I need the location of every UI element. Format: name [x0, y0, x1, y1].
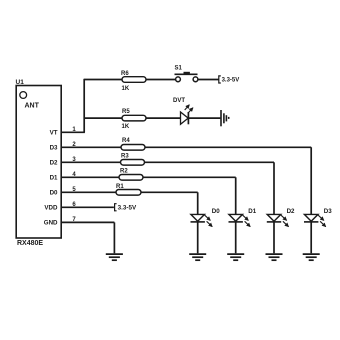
resistor R5 value 1K [122, 124, 130, 130]
wire LED D2 to ground [273, 222, 275, 253]
LED D2 emission arrows [281, 215, 289, 226]
switch S1 refdes label [175, 65, 183, 71]
resistor R1 refdes label [116, 184, 124, 190]
IC part number RX480E [17, 240, 43, 247]
svg-text:D2: D2 [50, 160, 58, 167]
svg-text:R3: R3 [121, 153, 129, 159]
wire LED D0 to ground [197, 222, 199, 253]
wire D2 pin row [61, 161, 274, 163]
ground (LED D3) [303, 254, 320, 260]
IC U1 body [16, 86, 61, 239]
wire D3 pin row [61, 146, 311, 148]
svg-text:R6: R6 [121, 71, 129, 77]
LED D2 label [287, 208, 295, 215]
pin number 7 [72, 217, 76, 223]
LED D1 emission arrows [243, 215, 251, 226]
wire D1 corner down to LED D1 [235, 177, 237, 214]
LED D2 [267, 214, 281, 222]
wire top row to R6 [84, 79, 123, 81]
ground (LED D0) [189, 254, 206, 260]
svg-text:D3: D3 [324, 208, 332, 215]
svg-text:3.3-5V: 3.3-5V [222, 78, 240, 84]
ground (LED D1) [227, 254, 244, 260]
resistor R5 refdes label [122, 109, 130, 115]
svg-text:D3: D3 [50, 145, 58, 152]
pin number 4 [72, 172, 76, 178]
wire VT riser vertical [83, 79, 85, 133]
resistor R3 refdes label [121, 153, 129, 159]
ground (GND pin) [106, 254, 123, 260]
ANT label [25, 103, 40, 110]
LED D1 label [248, 208, 256, 215]
svg-text:1K: 1K [122, 86, 130, 92]
svg-text:D1: D1 [50, 175, 58, 182]
resistor R4 refdes label [122, 138, 130, 144]
svg-text:R2: R2 [120, 169, 128, 175]
switch S1 [175, 72, 198, 82]
svg-text:DVT: DVT [173, 98, 185, 104]
LED DVT emission arrows [185, 105, 193, 113]
svg-text:VT: VT [50, 130, 58, 137]
resistor R4 [121, 145, 145, 151]
pin number 1 [72, 127, 76, 133]
wire R5 row from riser [84, 117, 123, 119]
wire R6 to switch S1 [146, 79, 176, 81]
svg-text:ANT: ANT [25, 103, 40, 110]
pin label D3 [50, 145, 58, 152]
pin number 5 [72, 187, 76, 193]
pin label VDD [44, 205, 58, 212]
svg-text:S1: S1 [175, 65, 183, 71]
wire VDD pin to power flag [61, 206, 114, 208]
pin label D0 [50, 190, 58, 197]
pin number 2 [72, 142, 76, 148]
LED DVT [181, 112, 189, 124]
pin number 3 [72, 157, 76, 163]
wire D2 corner down to LED D2 [273, 162, 275, 214]
pin label GND [44, 220, 58, 227]
antenna circle [20, 92, 27, 99]
pin label D2 [50, 160, 58, 167]
svg-text:R1: R1 [116, 184, 124, 190]
resistor R1 [116, 190, 141, 196]
resistor R2 refdes label [120, 169, 128, 175]
resistor R6 refdes label [121, 71, 129, 77]
svg-text:R4: R4 [122, 138, 130, 144]
wire GND pin to corner [61, 221, 114, 223]
wire LED DVT to ground [188, 117, 220, 119]
power flag 3.3-5V (VDD) [115, 204, 137, 212]
wire switch S1 to power flag [198, 79, 219, 81]
IC U1 refdes label [16, 79, 25, 86]
svg-text:D1: D1 [248, 208, 256, 215]
svg-text:GND: GND [44, 220, 58, 227]
ground (sideways, after DVT) [221, 110, 230, 126]
wire D0 pin row [61, 191, 198, 193]
LED D1 [229, 214, 243, 222]
svg-text:U1: U1 [16, 79, 25, 86]
svg-text:RX480E: RX480E [17, 240, 43, 247]
svg-text:D0: D0 [50, 190, 58, 197]
wire VT pin to riser [61, 131, 85, 133]
resistor R6 value 1K [122, 86, 130, 92]
ground (LED D2) [266, 254, 283, 260]
pin number 6 [72, 202, 76, 208]
svg-text:D2: D2 [287, 208, 295, 215]
svg-text:VDD: VDD [44, 205, 58, 212]
wire R5 to LED DVT [146, 117, 181, 119]
LED DVT refdes label [173, 98, 185, 104]
svg-text:1K: 1K [122, 124, 130, 130]
LED D0 [191, 214, 205, 222]
wire LED D1 to ground [235, 222, 237, 253]
pin label VT [50, 130, 58, 137]
LED D3 [304, 214, 318, 222]
LED D3 emission arrows [318, 215, 326, 226]
wire GND corner down [113, 222, 115, 253]
wire D0 corner down to LED D0 [197, 192, 199, 214]
svg-text:3.3-5V: 3.3-5V [118, 205, 137, 212]
resistor R3 [121, 160, 145, 166]
pin label D1 [50, 175, 58, 182]
LED D0 label [212, 208, 220, 215]
LED D0 emission arrows [205, 215, 213, 226]
resistor R6 [122, 77, 146, 83]
wire D3 corner down to LED D3 [310, 147, 312, 214]
svg-text:R5: R5 [122, 109, 130, 115]
svg-text:D0: D0 [212, 208, 220, 215]
resistor R2 [119, 175, 143, 181]
wire LED D3 to ground [310, 222, 312, 253]
LED D3 label [324, 208, 332, 215]
wire D1 pin row [61, 176, 236, 178]
resistor R5 [122, 115, 146, 121]
power flag 3.3-5V (top) [219, 76, 239, 84]
